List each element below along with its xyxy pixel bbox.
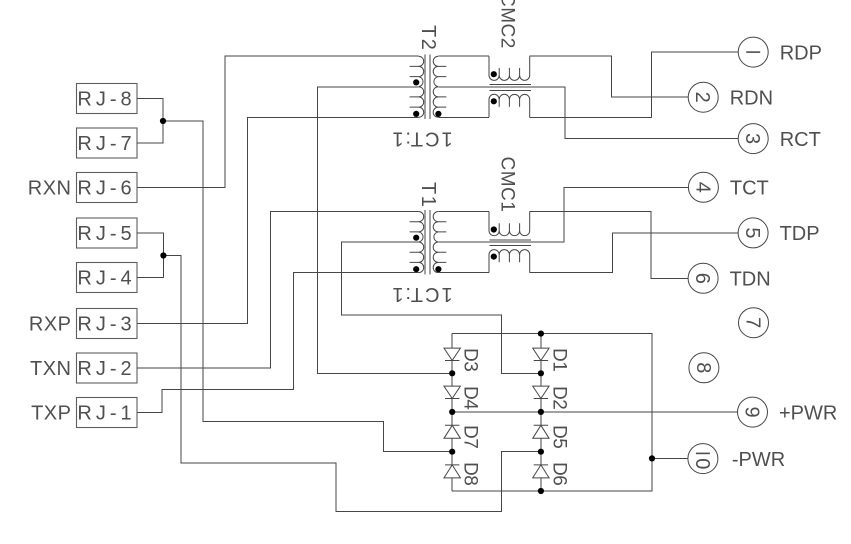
svg-text:RXN: RXN [28,178,72,200]
svg-text:RJ-2: RJ-2 [77,358,135,380]
svg-text:D8: D8 [460,462,481,485]
svg-text:CMC2: CMC2 [497,0,518,49]
svg-text:5: 5 [741,227,763,238]
svg-text:RJ-1: RJ-1 [77,403,135,425]
svg-text:9: 9 [741,407,763,418]
svg-text:D6: D6 [549,462,570,485]
svg-text:2: 2 [691,92,713,103]
svg-text:RCT: RCT [780,129,821,151]
svg-text:7: 7 [742,317,764,328]
svg-text:RJ-8: RJ-8 [77,89,135,111]
svg-text:D1: D1 [549,348,570,371]
svg-text:T1: T1 [417,182,439,208]
svg-text:RDN: RDN [730,87,773,109]
svg-text:RJ-7: RJ-7 [77,133,135,155]
svg-text:RJ-3: RJ-3 [77,314,135,336]
svg-text:3: 3 [741,133,763,144]
svg-text:TDN: TDN [730,269,771,291]
svg-text:D5: D5 [549,425,570,448]
svg-text:RJ-4: RJ-4 [77,268,135,290]
svg-text:8: 8 [692,362,714,373]
svg-text:-PWR: -PWR [732,449,785,471]
svg-text:RDP: RDP [780,42,822,64]
svg-text:RXP: RXP [29,314,72,336]
svg-text:TXN: TXN [30,358,72,380]
svg-text:D4: D4 [460,386,481,410]
svg-text:TXP: TXP [31,403,71,425]
svg-text:1CT:1: 1CT:1 [390,128,452,150]
svg-text:0: 0 [691,458,713,469]
svg-text:D2: D2 [549,386,570,409]
svg-text:4: 4 [691,182,713,193]
svg-text:TCT: TCT [730,178,769,200]
svg-text:D3: D3 [460,348,481,371]
svg-text:T2: T2 [417,25,439,51]
svg-text:TDP: TDP [780,223,820,245]
svg-text:RJ-6: RJ-6 [77,178,135,200]
svg-text:+PWR: +PWR [779,402,837,424]
svg-text:D7: D7 [460,425,481,448]
svg-text:6: 6 [691,273,713,284]
svg-text:CMC1: CMC1 [497,157,518,213]
svg-text:1CT:1: 1CT:1 [390,283,452,305]
svg-text:RJ-5: RJ-5 [77,223,135,245]
